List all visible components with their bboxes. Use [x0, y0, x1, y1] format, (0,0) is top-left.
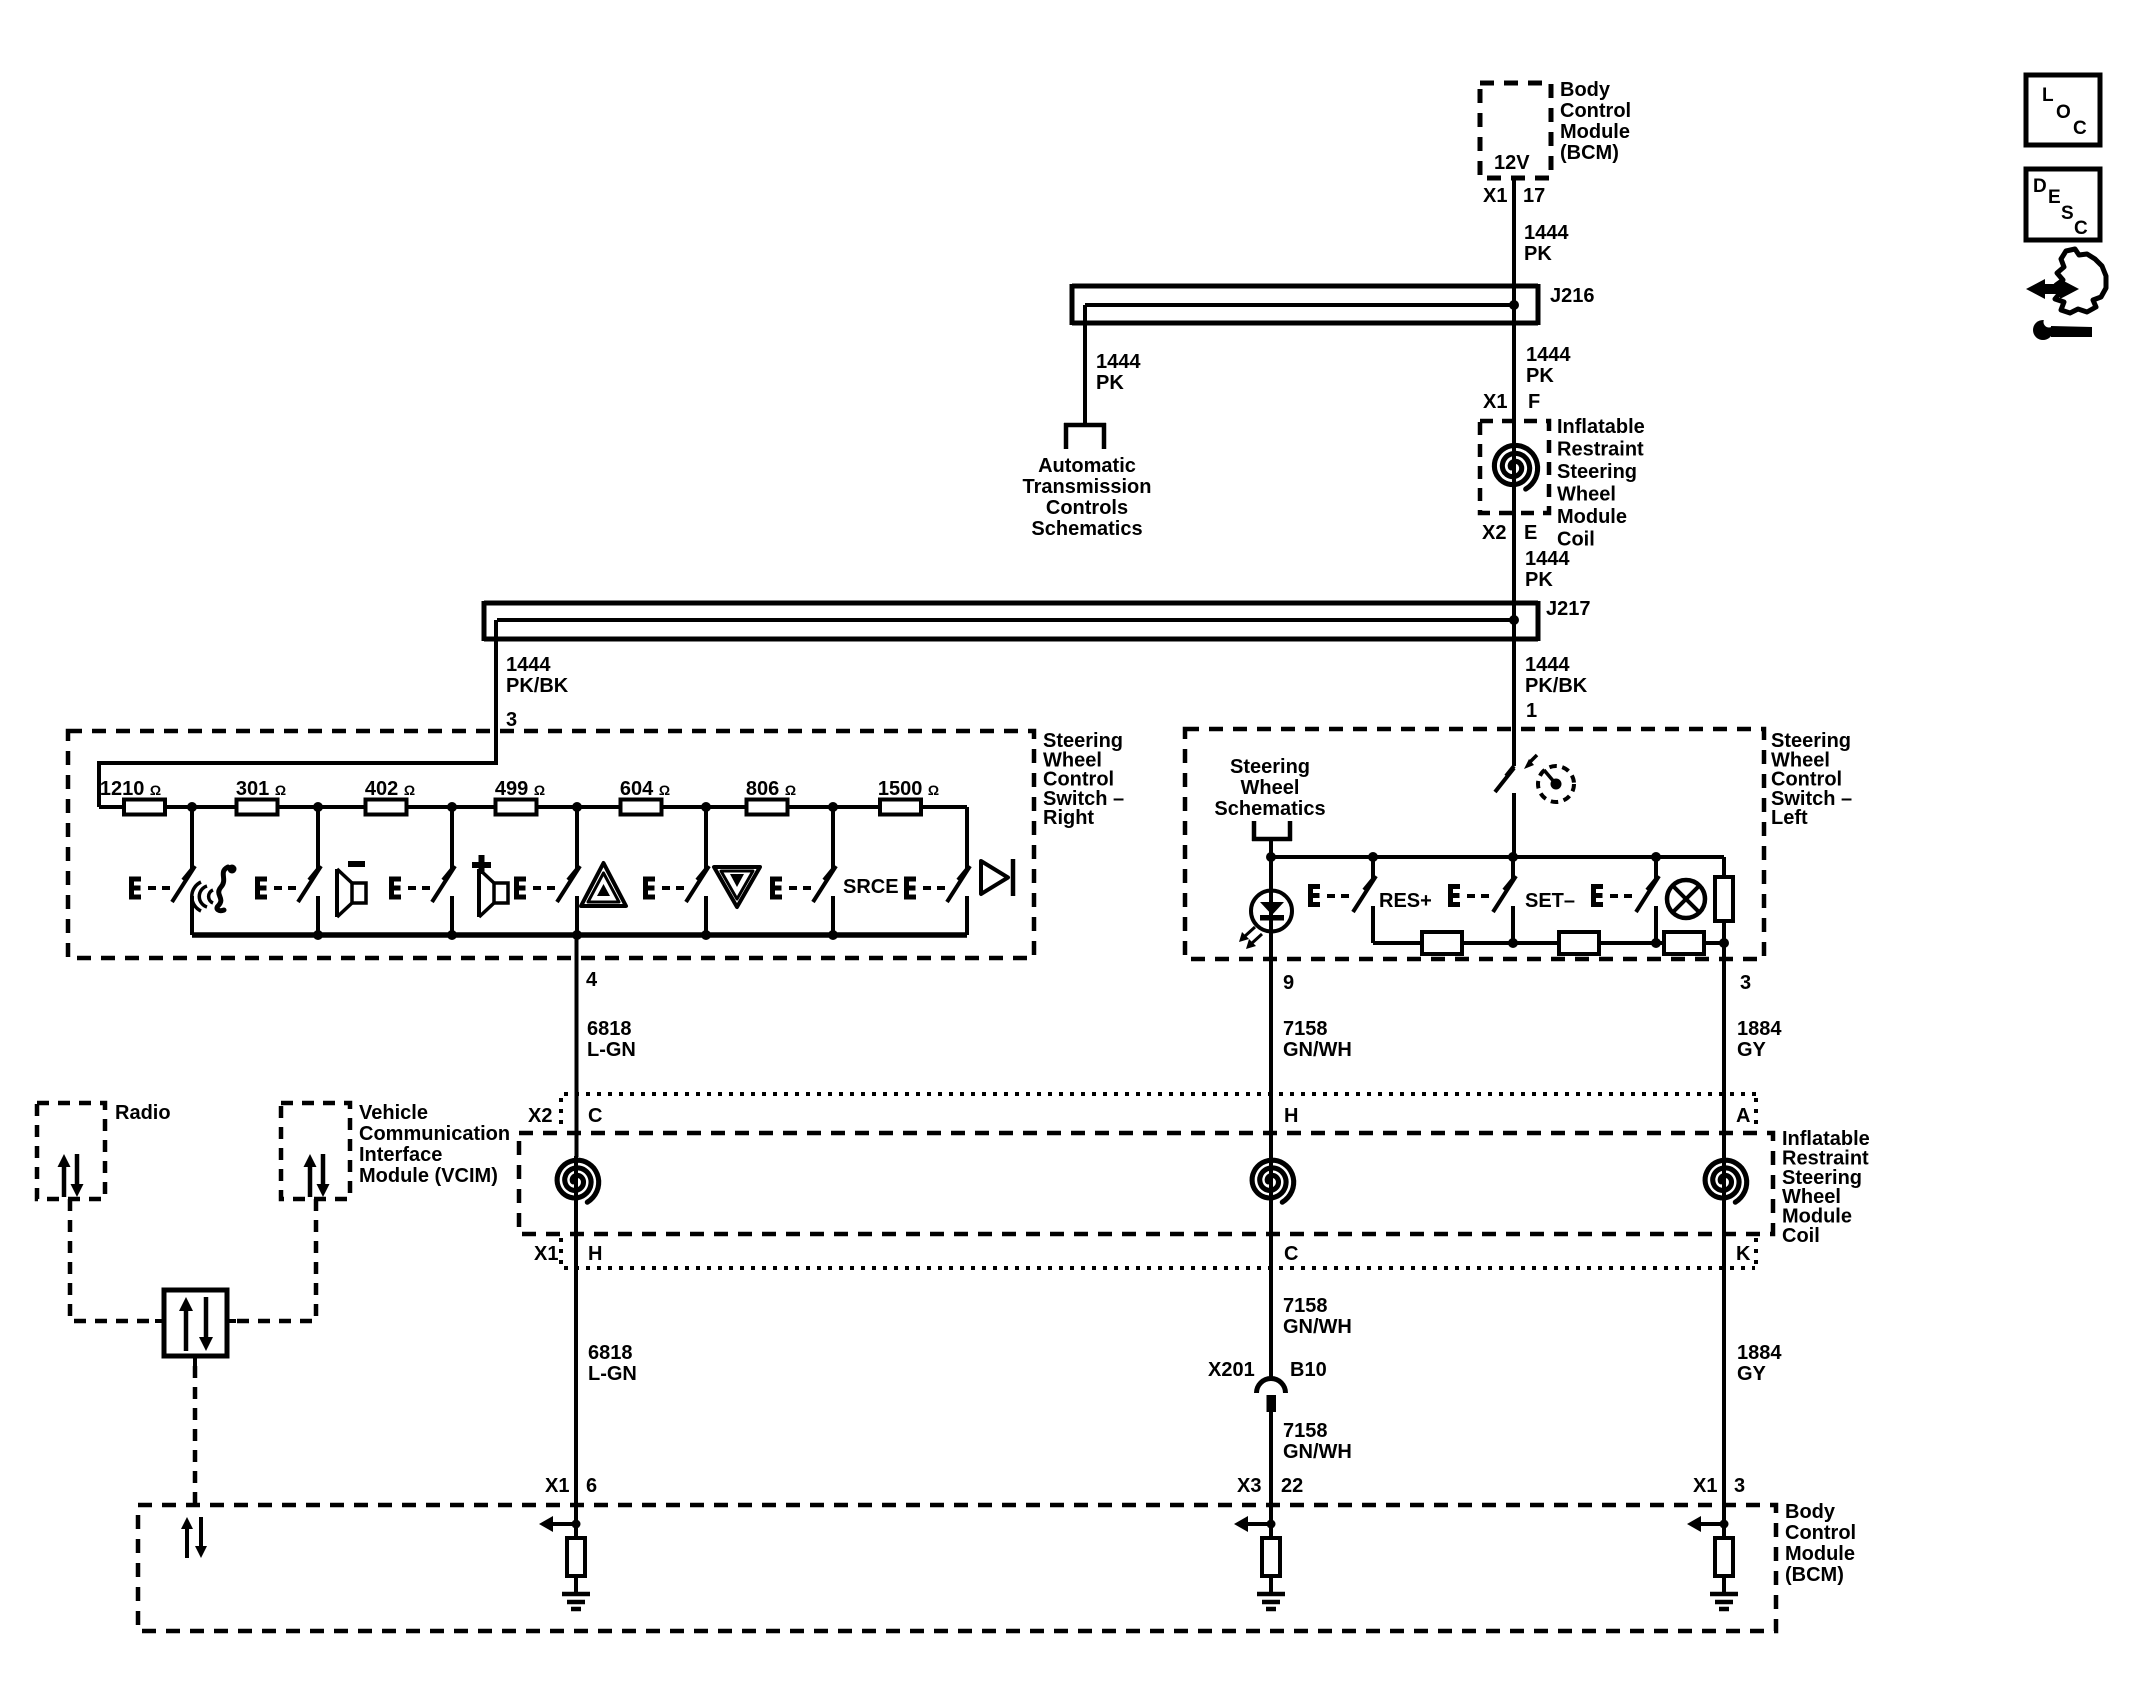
wire label 1444 PK/BK (left) — [506, 654, 569, 697]
svg-text:301 Ω: 301 Ω — [236, 778, 286, 800]
svg-text:D: D — [2033, 176, 2047, 197]
label Vehicle Communication Interface Module (VCIM) — [359, 1102, 510, 1187]
coil symbol middle — [1252, 1156, 1294, 1206]
svg-text:1444: 1444 — [1524, 222, 1569, 244]
serial data gateway box — [155, 1290, 236, 1366]
label Steering Wheel Control Switch - Right — [1043, 730, 1124, 829]
svg-text:RES+: RES+ — [1379, 890, 1432, 912]
ground symbol (middle) — [1257, 1576, 1285, 1609]
wire 1444 PK from BCM X1-17 to splice J216 — [1512, 178, 1516, 305]
legend DESC box — [2026, 169, 2100, 240]
wire label 1444 PK — [1526, 344, 1571, 387]
pin number 9 — [1283, 972, 1294, 994]
junction dot left bus 4 — [1651, 852, 1661, 862]
junction dot top bus 3 — [447, 802, 457, 812]
signal arrow into BCM (middle) — [1234, 1516, 1276, 1532]
legend LOC box — [2026, 75, 2100, 145]
common output bus (right box bottom) — [192, 932, 967, 938]
label J216 — [1550, 285, 1595, 307]
icon serial data arrows (BCM) — [181, 1517, 207, 1558]
resistor R5 604 ohm — [621, 800, 662, 815]
svg-text:Left: Left — [1771, 807, 1808, 829]
wire 1444 PK/BK into cruise switch — [1506, 731, 1514, 776]
cruise switch actuator arrow — [1524, 755, 1537, 769]
switch volume up — [389, 807, 455, 935]
junction dot bottom bus 3 — [572, 930, 582, 940]
legend service icon (arrows, hand, wrench) — [2026, 249, 2106, 340]
junction dot bottom bus 1 — [313, 930, 323, 940]
chain resistor B — [1559, 932, 1599, 954]
module: Body Control Module (BCM) top dashed box — [1480, 83, 1551, 178]
label RES+ — [1379, 890, 1432, 912]
svg-text:499 Ω: 499 Ω — [495, 778, 545, 800]
svg-text:Wheel: Wheel — [1241, 777, 1300, 799]
pin label 12V — [1494, 152, 1530, 174]
resistor vertical (left box) — [1715, 877, 1733, 921]
off-page reference bracket (Automatic Transmission Controls) — [1064, 423, 1106, 449]
icon phone (answer/end call) — [192, 865, 237, 912]
svg-text:B10: B10 — [1290, 1359, 1327, 1381]
svg-text:C: C — [1284, 1243, 1298, 1265]
module: Steering Wheel Control Switch - Left dashed box — [1185, 729, 1764, 959]
connector pins X1 6 (left) — [545, 1475, 597, 1497]
connector X1 pin labels H C K — [534, 1243, 1751, 1265]
svg-text:6818: 6818 — [587, 1018, 632, 1040]
wire 1444 PK/BK down to left switch — [1512, 620, 1516, 764]
label SRCE — [843, 876, 899, 898]
svg-text:Steering: Steering — [1557, 461, 1637, 483]
resistor pull-up (left) — [567, 1538, 585, 1576]
wire bus right end down — [965, 807, 969, 870]
label Inflatable Restraint Steering Wheel Module Coil — [1557, 416, 1645, 551]
value label 1500 ohm — [878, 778, 939, 800]
module: Body Control Module (BCM) bottom dashed box — [138, 1505, 1776, 1631]
coil (clockspring) symbol top — [1494, 441, 1537, 493]
svg-text:(BCM): (BCM) — [1560, 142, 1619, 164]
junction dot bottom bus 5 — [828, 930, 838, 940]
svg-text:C: C — [2074, 218, 2088, 239]
wire label 1444 PK — [1525, 548, 1570, 591]
value label 402 ohm — [365, 778, 415, 800]
svg-text:H: H — [1284, 1105, 1298, 1127]
ground symbol (left) — [562, 1576, 590, 1609]
pin number 4 — [586, 969, 598, 991]
icon speaker volume up (plus) — [472, 855, 508, 917]
svg-text:C: C — [588, 1105, 602, 1127]
svg-text:1884: 1884 — [1737, 1018, 1782, 1040]
switch SET- — [1448, 857, 1516, 943]
svg-text:1444: 1444 — [1526, 344, 1571, 366]
svg-text:X1: X1 — [1483, 391, 1507, 413]
icon seek next track — [981, 859, 1013, 896]
wire to resistor (left) — [574, 1524, 578, 1538]
junction dot top bus 2 — [313, 802, 323, 812]
LED indicator (steering wheel controls backlight) — [1239, 857, 1292, 949]
left box bus — [1271, 855, 1724, 859]
module: Inflatable Restraint Steering Wheel Module Coil dashed box (middle) — [519, 1133, 1773, 1234]
label Steering Wheel Schematics — [1214, 756, 1325, 820]
svg-text:GY: GY — [1737, 1363, 1767, 1385]
svg-text:3: 3 — [506, 709, 517, 731]
svg-text:J217: J217 — [1546, 598, 1591, 620]
wire label 1444 PK — [1524, 222, 1569, 265]
wire 1444 PK inside J216 to branch — [1085, 303, 1514, 307]
wire to resistor (middle) — [1269, 1524, 1273, 1538]
svg-text:O: O — [2056, 102, 2071, 123]
svg-text:1444: 1444 — [1525, 548, 1570, 570]
svg-text:Right: Right — [1043, 807, 1094, 829]
svg-text:H: H — [588, 1243, 602, 1265]
svg-text:Coil: Coil — [1782, 1225, 1820, 1247]
svg-text:C: C — [2073, 118, 2087, 139]
resistor R7 1500 ohm — [880, 800, 921, 815]
svg-text:402 Ω: 402 Ω — [365, 778, 415, 800]
value label 301 ohm — [236, 778, 286, 800]
junction dot chain 2 — [1651, 938, 1661, 948]
resistor R3 402 ohm — [366, 800, 407, 815]
connector pins X2 E — [1482, 522, 1537, 544]
svg-text:1: 1 — [1526, 700, 1537, 722]
svg-text:Schematics: Schematics — [1214, 798, 1325, 820]
module: Steering Wheel Control Switch - Right dashed box — [68, 731, 1034, 958]
svg-text:SRCE: SRCE — [843, 876, 899, 898]
junction dot J216 — [1509, 300, 1519, 310]
label SET- — [1525, 890, 1575, 912]
module: Radio dashed box — [37, 1103, 105, 1199]
svg-text:A: A — [1736, 1105, 1750, 1127]
wire 1444 PK from J216 to SIR coil X1-F — [1512, 305, 1516, 446]
svg-text:S: S — [2061, 203, 2074, 224]
chain resistor C — [1664, 932, 1704, 954]
svg-text:Wheel: Wheel — [1557, 484, 1616, 506]
pin number 3 — [1740, 972, 1751, 994]
svg-text:Module: Module — [1785, 1543, 1855, 1565]
svg-text:Steering: Steering — [1230, 756, 1310, 778]
svg-text:604 Ω: 604 Ω — [620, 778, 670, 800]
switch RES+ — [1308, 857, 1376, 943]
svg-text:Module: Module — [1560, 121, 1630, 143]
svg-text:X2: X2 — [1482, 522, 1506, 544]
svg-text:X1: X1 — [1693, 1475, 1717, 1497]
ground symbol (right) — [1710, 1576, 1738, 1609]
svg-text:1210 Ω: 1210 Ω — [100, 778, 161, 800]
module: Vehicle Communication Interface Module (VCIM) dashed box — [281, 1103, 350, 1199]
icon hazard warning triangle — [581, 863, 626, 906]
svg-text:Control: Control — [1785, 1522, 1856, 1544]
wire cruise switch to bus — [1512, 793, 1516, 857]
wire label 1884 GY (upper) — [1737, 1018, 1782, 1061]
svg-text:Controls: Controls — [1046, 497, 1128, 519]
icon seek down triangle — [714, 867, 760, 907]
svg-text:PK: PK — [1526, 365, 1554, 387]
wire 7158 GN/WH to connector X201 — [1269, 1205, 1273, 1379]
cruise switch blade — [1495, 768, 1514, 792]
resistor pull-up (middle) — [1262, 1538, 1280, 1576]
signal arrow into BCM (right) — [1687, 1516, 1729, 1532]
svg-text:F: F — [1528, 391, 1540, 413]
svg-text:Control: Control — [1560, 100, 1631, 122]
wire bus to resistor — [1722, 857, 1726, 877]
label Radio — [115, 1102, 171, 1124]
svg-text:7158: 7158 — [1283, 1018, 1328, 1040]
wire 6818 L-GN from pin 4 to coil — [575, 935, 579, 1157]
junction dot left bus 1 — [1266, 852, 1276, 862]
connector pins X3 22 (middle) — [1237, 1475, 1303, 1497]
value label 499 ohm — [495, 778, 545, 800]
wire label 1444 PK/BK (right) — [1525, 654, 1588, 697]
svg-text:GN/WH: GN/WH — [1283, 1316, 1352, 1338]
switch seek next — [904, 807, 970, 935]
junction dot top bus 1 — [187, 802, 197, 812]
svg-text:E: E — [2048, 187, 2061, 208]
svg-text:9: 9 — [1283, 972, 1294, 994]
svg-text:Schematics: Schematics — [1031, 518, 1142, 540]
svg-text:J216: J216 — [1550, 285, 1595, 307]
svg-text:Transmission: Transmission — [1023, 476, 1152, 498]
svg-text:4: 4 — [586, 969, 598, 991]
svg-text:X2: X2 — [528, 1105, 552, 1127]
svg-text:7158: 7158 — [1283, 1295, 1328, 1317]
svg-text:PK: PK — [1525, 569, 1553, 591]
wire 7158 GN/WH from LED pin 9 to coil — [1269, 932, 1273, 1157]
svg-text:L: L — [2042, 85, 2054, 106]
resistor R4 499 ohm — [496, 800, 537, 815]
svg-text:GN/WH: GN/WH — [1283, 1441, 1352, 1463]
junction dot chain 1 — [1508, 938, 1518, 948]
label Automatic Transmission Controls Schematics — [1023, 455, 1152, 540]
resistor R1 1210 ohm — [124, 800, 165, 815]
wire label 7158 GN/WH (lower) — [1283, 1420, 1352, 1463]
svg-text:L-GN: L-GN — [587, 1039, 636, 1061]
svg-text:12V: 12V — [1494, 152, 1530, 174]
pin number 3 — [506, 709, 517, 731]
connector band X1 dotted line — [561, 1238, 1756, 1268]
resistor R6 806 ohm — [747, 800, 788, 815]
wire label 6818 L-GN (lower) — [588, 1342, 637, 1385]
svg-text:Module (VCIM): Module (VCIM) — [359, 1165, 498, 1187]
svg-text:X1: X1 — [545, 1475, 569, 1497]
wire 1884 GY from pin 3 to coil — [1722, 943, 1726, 1157]
wire 1444 PK from coil X2-E to splice J217 — [1512, 488, 1516, 620]
connector pins X1 17 — [1483, 185, 1545, 207]
icon speaker volume down (minus) — [337, 861, 366, 917]
junction dot top bus 4 — [572, 802, 582, 812]
dashed serial data wire to BCM — [193, 1366, 198, 1505]
chain resistor A — [1422, 932, 1462, 954]
svg-text:E: E — [1524, 522, 1537, 544]
svg-text:1444: 1444 — [506, 654, 551, 676]
signal arrow into BCM (left) — [539, 1516, 581, 1532]
connector band X2 dotted line — [561, 1094, 1756, 1129]
svg-text:3: 3 — [1734, 1475, 1745, 1497]
svg-text:Automatic: Automatic — [1038, 455, 1136, 477]
junction dot bottom bus 4 — [701, 930, 711, 940]
svg-text:X3: X3 — [1237, 1475, 1261, 1497]
resistor pull-up (right) — [1715, 1538, 1733, 1576]
svg-text:SET–: SET– — [1525, 890, 1575, 912]
svg-text:PK/BK: PK/BK — [506, 675, 569, 697]
wire 1444 PK branch down to off-page reference — [1083, 305, 1087, 423]
wire 6818 L-GN to BCM X1-6 — [574, 1205, 578, 1524]
svg-text:17: 17 — [1523, 185, 1545, 207]
svg-text:7158: 7158 — [1283, 1420, 1328, 1442]
svg-text:GY: GY — [1737, 1039, 1767, 1061]
resistor ladder bus (right box) — [99, 805, 967, 809]
label Body Control Module (BCM) bottom — [1785, 1501, 1856, 1586]
svg-text:6: 6 — [586, 1475, 597, 1497]
dashed serial data wire from VCIM — [236, 1199, 316, 1321]
svg-text:Inflatable: Inflatable — [1557, 416, 1645, 438]
junction dot chain 3 — [1719, 938, 1729, 948]
splice package J217 outline — [484, 601, 1538, 641]
svg-text:PK: PK — [1096, 372, 1124, 394]
coil symbol left — [557, 1156, 599, 1206]
svg-text:PK/BK: PK/BK — [1525, 675, 1588, 697]
svg-text:1444: 1444 — [1096, 351, 1141, 373]
junction dot top bus 6 — [828, 802, 838, 812]
wire to resistor (right) — [1722, 1524, 1726, 1538]
icon cruise control gauge — [1538, 766, 1574, 802]
junction dot left bus 2 — [1368, 852, 1378, 862]
wire resistor to chain — [1722, 921, 1726, 943]
value label 1210 ohm — [100, 778, 161, 800]
svg-text:Radio: Radio — [115, 1102, 171, 1124]
svg-text:X1: X1 — [1483, 185, 1507, 207]
wire 7158 GN/WH from X201 to BCM X3-22 — [1269, 1411, 1273, 1524]
switch cruise cancel — [1591, 857, 1659, 943]
label Steering Wheel Control Switch - Left — [1771, 730, 1852, 829]
svg-text:GN/WH: GN/WH — [1283, 1039, 1352, 1061]
value label 604 ohm — [620, 778, 670, 800]
wire label 1884 GY (lower) — [1737, 1342, 1782, 1385]
wire label 6818 L-GN (upper) — [587, 1018, 636, 1061]
switch source — [770, 807, 836, 935]
wire 1444 PK/BK down into right switch box — [99, 620, 496, 807]
svg-text:1500 Ω: 1500 Ω — [878, 778, 939, 800]
resistor chain line (left box) — [1373, 941, 1724, 945]
icon serial data arrows (gateway) — [179, 1297, 213, 1351]
pin number 1 — [1526, 700, 1537, 722]
in-line connector X201 pin B10 — [1257, 1379, 1286, 1413]
junction dot bottom bus 2 — [447, 930, 457, 940]
label J217 — [1546, 598, 1591, 620]
svg-text:PK: PK — [1524, 243, 1552, 265]
switch volume down — [255, 807, 321, 935]
svg-text:806 Ω: 806 Ω — [746, 778, 796, 800]
icon serial data arrows (Radio) — [58, 1154, 84, 1197]
connector pins X1 3 (right) — [1693, 1475, 1745, 1497]
module: Inflatable Restraint Steering Wheel Module Coil dashed box (top) — [1480, 421, 1549, 513]
label Inflatable Restraint Steering Wheel Module Coil (middle) — [1782, 1128, 1870, 1247]
svg-text:22: 22 — [1281, 1475, 1303, 1497]
connector pins X1 F — [1483, 391, 1540, 413]
svg-text:Module: Module — [1557, 506, 1627, 528]
labels X201 B10 — [1208, 1359, 1327, 1381]
switch mute/seek down — [643, 807, 709, 935]
svg-text:Vehicle: Vehicle — [359, 1102, 428, 1124]
off-page reference bracket (Steering Wheel Schematics) — [1252, 821, 1292, 841]
svg-text:Restraint: Restraint — [1557, 439, 1644, 461]
svg-text:(BCM): (BCM) — [1785, 1564, 1844, 1586]
svg-text:K: K — [1736, 1243, 1751, 1265]
svg-text:X201: X201 — [1208, 1359, 1255, 1381]
value label 806 ohm — [746, 778, 796, 800]
svg-text:3: 3 — [1740, 972, 1751, 994]
svg-text:6818: 6818 — [588, 1342, 633, 1364]
svg-text:Body: Body — [1560, 79, 1611, 101]
label Body Control Module (BCM) — [1560, 79, 1631, 164]
resistor R2 301 ohm — [237, 800, 278, 815]
switch answer/end call — [129, 807, 195, 935]
switch hazard — [514, 807, 580, 935]
svg-text:Communication: Communication — [359, 1123, 510, 1145]
wire label 7158 GN/WH (upper) — [1283, 1018, 1352, 1061]
icon lamp (circle-X) — [1667, 880, 1705, 918]
svg-text:1444: 1444 — [1525, 654, 1570, 676]
svg-text:Interface: Interface — [359, 1144, 442, 1166]
svg-text:X1: X1 — [534, 1243, 558, 1265]
wire 1444 PK/BK inside J217 — [497, 618, 1514, 622]
wire from reference to bus — [1269, 841, 1273, 857]
svg-text:Body: Body — [1785, 1501, 1836, 1523]
wire label 7158 GN/WH (mid) — [1283, 1295, 1352, 1338]
connector X2 pin labels C H A — [528, 1105, 1750, 1127]
svg-text:L-GN: L-GN — [588, 1363, 637, 1385]
icon serial data arrows (VCIM) — [304, 1154, 330, 1197]
junction dot left bus 3 — [1508, 852, 1518, 862]
wire label 1444 PK (branch) — [1096, 351, 1141, 394]
dashed serial data wire from Radio — [70, 1199, 155, 1321]
junction dot top bus 5 — [701, 802, 711, 812]
coil symbol right — [1705, 1156, 1747, 1206]
svg-text:1884: 1884 — [1737, 1342, 1782, 1364]
junction dot J217 — [1509, 615, 1519, 625]
splice package J216 outline — [1072, 284, 1538, 325]
wire 1884 GY to BCM X1-3 — [1722, 1205, 1726, 1524]
